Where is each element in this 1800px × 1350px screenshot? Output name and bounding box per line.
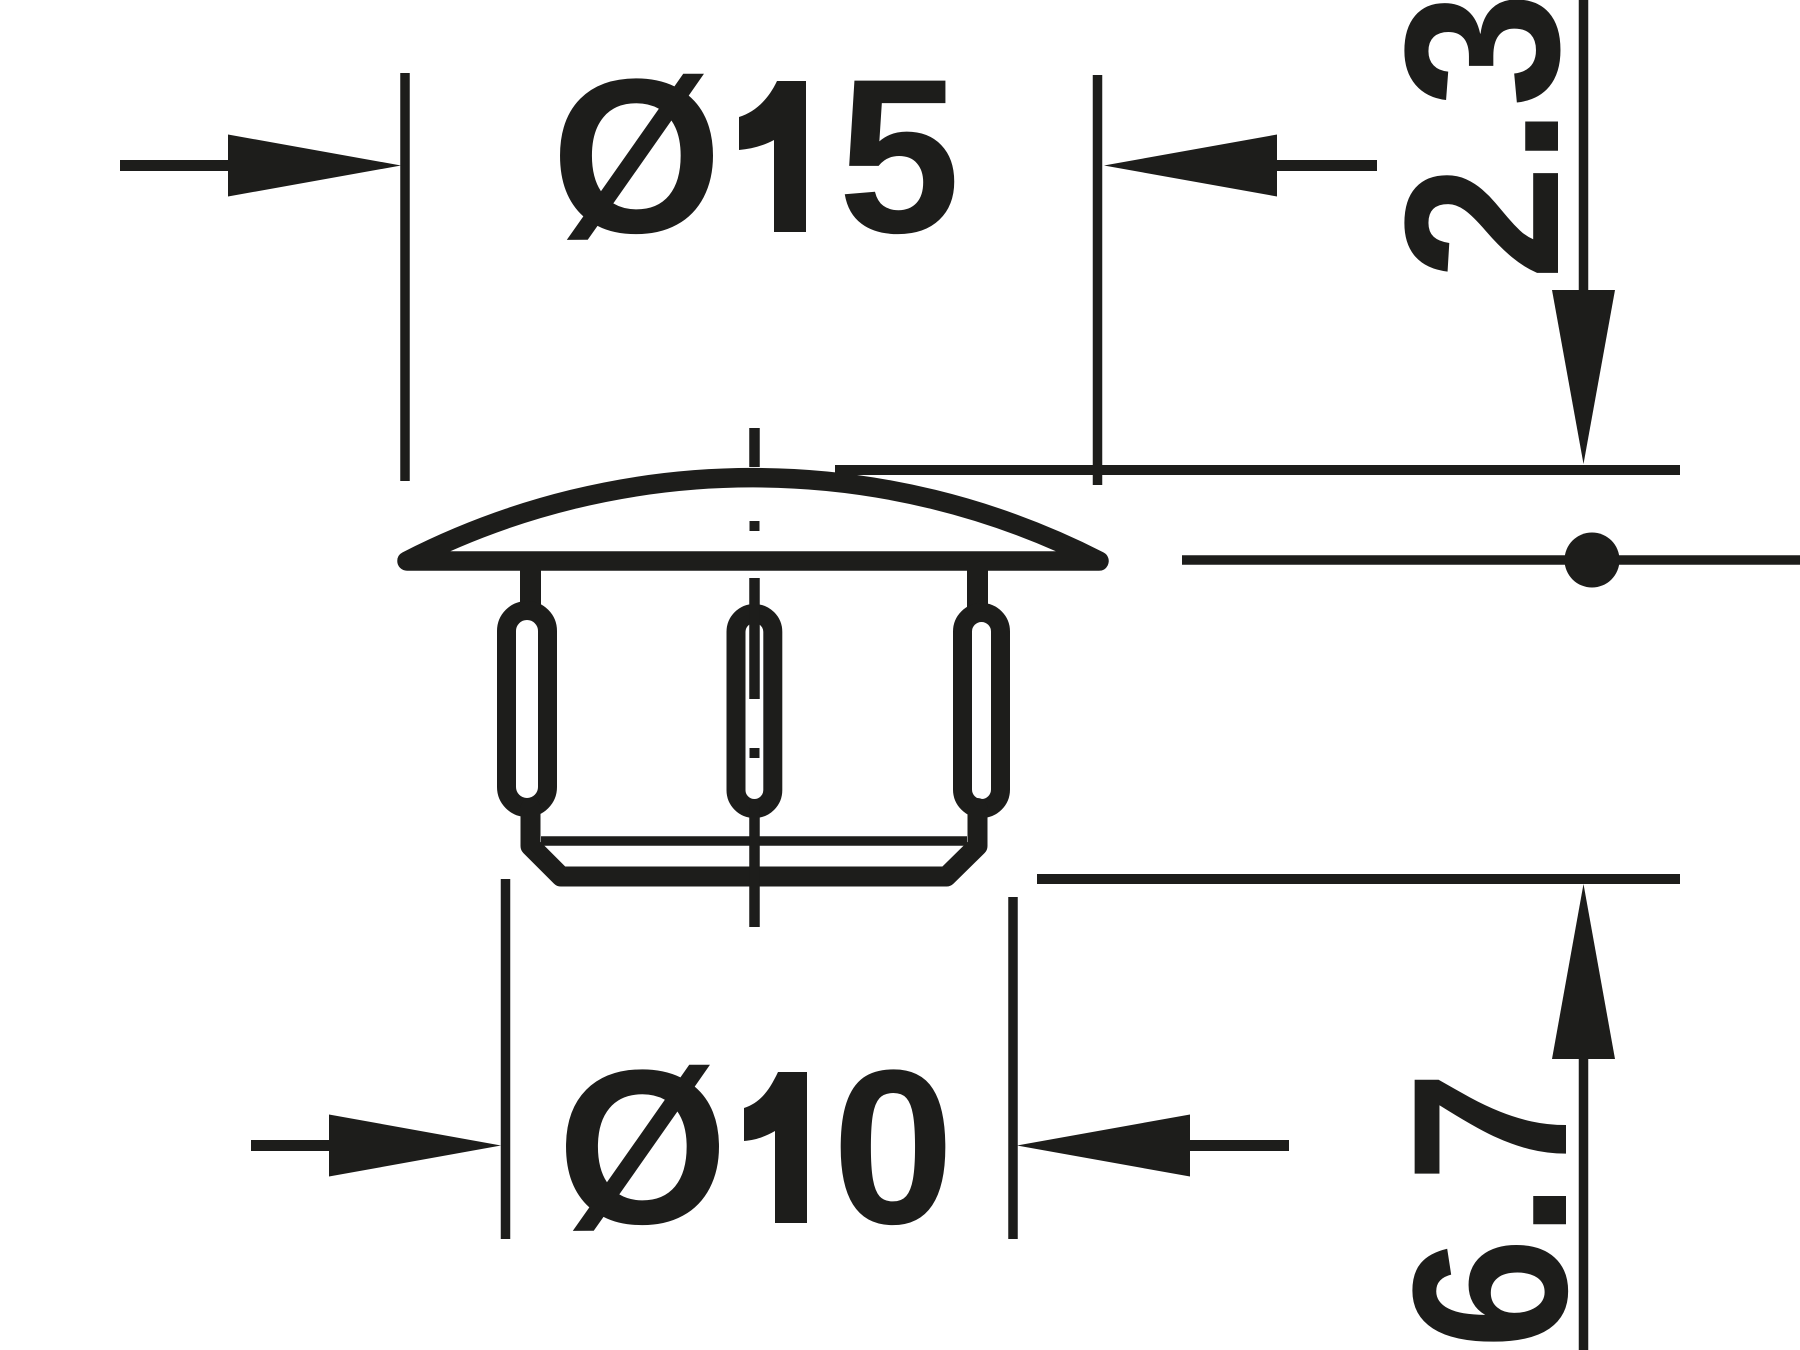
extension line left (Ø10)	[501, 879, 511, 1239]
dimension line 6.7 with up arrow	[1552, 884, 1615, 1350]
centerline vertical segment upper body	[749, 578, 760, 699]
wall stub left	[520, 565, 541, 612]
svg-text:Ø: Ø	[557, 1024, 728, 1270]
rib left	[507, 611, 548, 808]
centerline dot inside dome	[750, 521, 760, 531]
label Ø10	[557, 1024, 954, 1270]
chamfer edge line	[541, 836, 967, 846]
cover cap dome with brim	[407, 478, 1099, 561]
body lower wall with chamfered bottom	[531, 808, 978, 877]
extension line right (Ø15)	[1093, 75, 1103, 485]
label Ø15	[551, 33, 960, 279]
dimension arrow Ø10 right	[1017, 1115, 1289, 1177]
centerline vertical segment below body	[749, 805, 760, 927]
centerline dot lower body	[750, 748, 760, 758]
rib right	[963, 613, 1001, 809]
extension line right (Ø10)	[1008, 897, 1018, 1239]
extension line left (Ø15)	[400, 73, 410, 481]
wall stub right	[967, 565, 988, 612]
dimension arrow Ø15 left	[120, 135, 401, 197]
svg-text:2.3: 2.3	[1359, 0, 1605, 280]
dimension arrow Ø15 right	[1104, 135, 1377, 197]
reference line top (2.3)	[835, 465, 1680, 475]
svg-text:6.7: 6.7	[1367, 1071, 1613, 1349]
dimension arrow Ø10 left	[251, 1115, 501, 1177]
horizontal centerline right	[1182, 533, 1800, 588]
dimension line 2.3 with down arrow	[1552, 0, 1615, 464]
svg-text:0: 0	[832, 1024, 954, 1270]
svg-text:Ø: Ø	[551, 33, 722, 279]
reference line bottom (6.7)	[1037, 874, 1680, 884]
svg-text:5: 5	[838, 33, 960, 279]
rib center	[736, 614, 773, 809]
centerline vertical segment above dome	[749, 428, 760, 467]
